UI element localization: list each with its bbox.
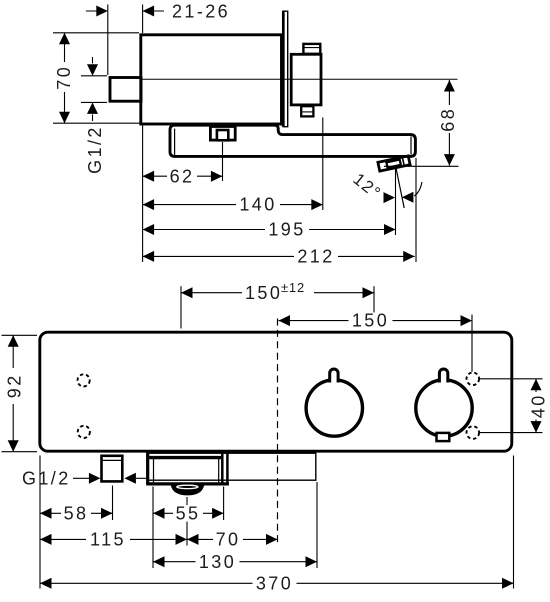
12 deg slanted reference line — [396, 167, 404, 208]
extension: body right edge down — [513, 456, 515, 589]
spout assembly outline (side view) — [170, 125, 415, 156]
spout box (front view) — [146, 453, 229, 485]
dim 40 — [529, 379, 549, 433]
thermostat cartridge body — [291, 54, 321, 105]
G1/2 fitting (front view) — [102, 456, 123, 482]
aerator (12 deg tilted) — [378, 156, 410, 171]
G1/2 label (side view) — [81, 57, 107, 174]
12 deg arc leader — [414, 182, 422, 196]
svg-text:70: 70 — [216, 530, 241, 550]
svg-text:58: 58 — [64, 503, 89, 523]
dim 150+-12 extension lines — [180, 286, 182, 328]
screw hole bottom-left (dashed) — [78, 426, 90, 438]
extension line from body left bottom corner — [142, 126, 144, 263]
svg-text:G1/2: G1/2 — [22, 469, 71, 489]
svg-text:370: 370 — [256, 573, 293, 593]
svg-text:21-26: 21-26 — [172, 2, 230, 22]
12 deg vertical reference / 195 extension line — [395, 168, 397, 235]
dim 150 extension line right — [471, 315, 473, 372]
dim 70 (front) — [187, 530, 278, 550]
mixer body (side view) — [141, 35, 282, 124]
extension: aerator center down — [186, 497, 188, 546]
wall escutcheon plate — [283, 11, 287, 127]
dim 58 — [40, 503, 113, 523]
extension: plate right edge down — [316, 482, 318, 568]
dim 21-26 extension line right — [142, 5, 144, 34]
dim 115 — [40, 530, 187, 550]
right knob (shut-off handle) — [416, 369, 472, 441]
dim 92 — [4, 335, 24, 451]
dim 40 extension lines — [480, 378, 543, 380]
extension line from spout right end — [415, 158, 417, 262]
svg-text:±12: ±12 — [281, 280, 305, 295]
centerline through body and spout axis — [140, 78, 458, 80]
extension: spout box left down — [152, 487, 154, 569]
dim 130 — [153, 552, 317, 572]
dim 195 — [143, 220, 396, 240]
extension: body left edge down — [39, 456, 41, 589]
dashed centerline of spout region — [277, 319, 279, 547]
spout inner line left — [174, 129, 176, 155]
aerator (front view) — [171, 484, 205, 495]
dim 68 — [438, 80, 458, 166]
cartridge bottom tab — [301, 106, 313, 116]
dim 212 — [143, 247, 415, 267]
svg-text:150: 150 — [352, 311, 389, 331]
dim 21-26 — [86, 2, 230, 22]
svg-text:130: 130 — [199, 552, 236, 572]
extension: fitting center down — [112, 486, 114, 521]
mounting hole top-right (dashed) — [467, 373, 480, 386]
mounting hole bottom-right (dashed) — [467, 426, 480, 439]
dim 70 extension bottom — [53, 122, 140, 124]
G1/2 label (front view) — [22, 469, 147, 489]
mounting plate under body — [147, 453, 316, 480]
svg-text:70: 70 — [54, 65, 74, 90]
svg-text:62: 62 — [170, 166, 195, 186]
dim 68 extension bottom — [384, 165, 459, 167]
svg-text:92: 92 — [4, 373, 24, 398]
svg-text:212: 212 — [297, 247, 334, 267]
screw hole top-left (dashed) — [78, 374, 90, 386]
dim 55 — [153, 503, 224, 523]
svg-text:G1/2: G1/2 — [85, 125, 105, 174]
left knob (thermostat handle) — [306, 369, 362, 436]
G1/2 inlet fitting (side view) — [110, 78, 141, 102]
extension line from cartridge right — [322, 118, 324, 211]
dim 70 extension top — [53, 32, 139, 34]
dim 370 — [40, 573, 514, 593]
extension: spout box right down — [223, 487, 225, 521]
svg-text:68: 68 — [438, 107, 458, 132]
dim 150 — [279, 311, 473, 331]
dim 150+-12 — [181, 280, 374, 303]
dim 62 — [143, 166, 223, 186]
svg-text:115: 115 — [90, 530, 126, 550]
svg-text:40: 40 — [529, 393, 549, 418]
mixer body (front view) — [40, 332, 512, 451]
svg-text:195: 195 — [268, 220, 305, 240]
dim 92 extension lines — [2, 334, 38, 336]
cartridge top button — [303, 44, 320, 54]
svg-text:140: 140 — [239, 195, 276, 215]
svg-text:150: 150 — [245, 283, 282, 303]
svg-text:55: 55 — [176, 503, 201, 523]
hose connection nut on spout — [210, 127, 235, 141]
dim 70 — [54, 33, 74, 123]
dim 21-26 extension line left — [107, 5, 109, 76]
12 deg arrows — [384, 192, 396, 203]
extension line from nut center — [222, 142, 224, 181]
spout inner line right — [410, 137, 412, 155]
dim 140 — [143, 195, 323, 215]
